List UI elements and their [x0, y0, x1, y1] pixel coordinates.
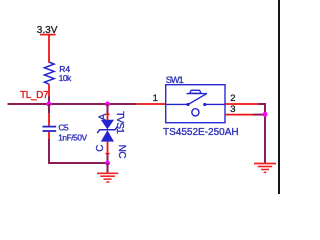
switch internal stub pin1 — [166, 103, 187, 105]
node junction at R4/C5 — [46, 102, 51, 107]
wire C5 bottom maroon — [48, 139, 50, 164]
resistor R4 — [44, 62, 54, 84]
pin end tick TVS — [106, 153, 110, 155]
wire pin3 maroon — [253, 114, 265, 116]
svg-text:TVS1: TVS1 — [114, 111, 125, 134]
switch lever — [188, 94, 206, 105]
svg-text:C: C — [95, 145, 106, 152]
wire TVS top red — [107, 114, 109, 120]
svg-text:1nF/50V: 1nF/50V — [58, 134, 87, 143]
switch plunger circle — [192, 109, 199, 116]
wire R4 to junction maroon — [48, 97, 50, 106]
wire pin2 red — [226, 103, 259, 105]
svg-text:NC: NC — [116, 145, 127, 159]
svg-text:3: 3 — [230, 104, 235, 115]
wire R4 bottom red — [48, 84, 50, 97]
svg-text:C5: C5 — [58, 123, 69, 133]
pin end tick TVS top — [106, 113, 110, 115]
wire C5 top maroon — [48, 104, 50, 114]
switch contact left — [186, 103, 189, 106]
node junction pin3 — [263, 112, 268, 117]
node junction at GND left — [105, 161, 110, 166]
svg-text:TL_D7: TL_D7 — [20, 90, 49, 101]
switch SW1 box — [166, 85, 225, 123]
sheet border right — [278, 0, 280, 194]
capacitor C5 — [43, 127, 57, 131]
diode TVS1 — [97, 120, 117, 142]
svg-text:2: 2 — [230, 93, 235, 104]
wire bottom horizontal maroon — [48, 162, 108, 164]
ground left — [97, 163, 118, 182]
svg-text:A: A — [98, 113, 109, 120]
ground right — [254, 164, 276, 173]
switch actuator cap — [190, 90, 202, 93]
wire TVS bottom maroon — [107, 154, 109, 163]
wire pin2 maroon — [259, 103, 267, 105]
wire TVS bottom red — [107, 142, 109, 154]
node junction at TVS top — [105, 102, 110, 107]
wire TL_D7 horizontal maroon — [8, 103, 137, 105]
wire C5 top red — [48, 114, 50, 126]
switch contact right — [203, 103, 206, 106]
wire TVS top maroon — [107, 104, 109, 114]
wire pin1 red segment — [137, 103, 166, 105]
switch internal stub pin2 — [205, 103, 226, 105]
wire C5 bottom red — [48, 132, 50, 139]
svg-text:1: 1 — [153, 93, 158, 104]
wire 3.3V stem — [48, 35, 50, 63]
wire right vertical maroon — [264, 103, 266, 163]
power port bar — [40, 34, 56, 36]
svg-text:TS4552E-250AH: TS4552E-250AH — [163, 127, 239, 138]
svg-text:10k: 10k — [59, 73, 72, 83]
wire pin3 red — [225, 114, 253, 116]
svg-text:SW1: SW1 — [166, 75, 184, 85]
switch actuator bar — [187, 93, 208, 95]
